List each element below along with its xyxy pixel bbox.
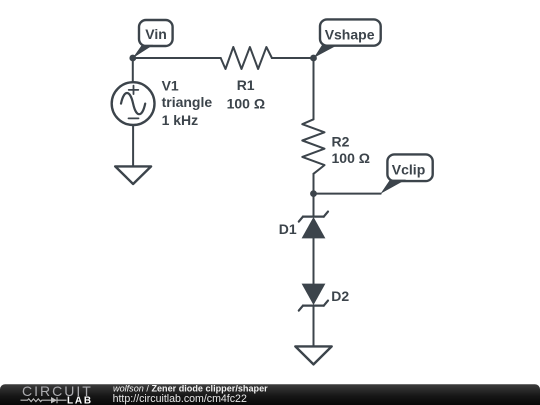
svg-text:Vin: Vin bbox=[145, 26, 167, 42]
svg-text:Vshape: Vshape bbox=[325, 26, 375, 42]
svg-text:triangle: triangle bbox=[162, 94, 213, 110]
svg-text:100 Ω: 100 Ω bbox=[227, 95, 265, 111]
svg-text:100 Ω: 100 Ω bbox=[332, 150, 370, 166]
svg-text:Vclip: Vclip bbox=[392, 162, 425, 178]
svg-text:wolfson / Zener diode clipper/: wolfson / Zener diode clipper/shaper bbox=[113, 384, 268, 394]
svg-text:R2: R2 bbox=[332, 134, 350, 150]
svg-text:R1: R1 bbox=[237, 77, 255, 93]
svg-text:http://circuitlab.com/cm4fc22: http://circuitlab.com/cm4fc22 bbox=[113, 393, 247, 405]
svg-text:D1: D1 bbox=[279, 221, 297, 237]
svg-text:V1: V1 bbox=[162, 77, 179, 93]
svg-text:1 kHz: 1 kHz bbox=[162, 112, 199, 128]
svg-text:D2: D2 bbox=[331, 288, 349, 304]
svg-text:LAB: LAB bbox=[67, 395, 93, 405]
